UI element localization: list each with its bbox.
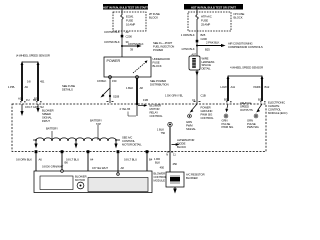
svg-text:BLOCK: BLOCK — [149, 16, 158, 20]
svg-text:POWER: POWER — [107, 59, 121, 63]
svg-text:25 AMP: 25 AMP — [201, 23, 210, 27]
svg-text:C200: C200 — [126, 34, 133, 38]
svg-text:B4: B4 — [149, 158, 153, 162]
svg-text:MODULE: MODULE — [154, 179, 166, 183]
svg-text:A11: A11 — [231, 85, 236, 89]
svg-text:POWER: POWER — [153, 48, 163, 52]
svg-text:OUTPUTS: OUTPUTS — [240, 108, 253, 112]
svg-text:TAP: TAP — [96, 122, 101, 126]
svg-text:1 PPL: 1 PPL — [8, 85, 16, 89]
svg-text:S208: S208 — [113, 95, 120, 99]
svg-text:1 BLK: 1 BLK — [126, 86, 133, 90]
svg-text:DETAILS: DETAILS — [62, 88, 73, 92]
svg-text:BLK: BLK — [155, 161, 160, 165]
svg-text:DETAIL: DETAIL — [202, 66, 212, 70]
svg-text:450: 450 — [160, 166, 165, 170]
svg-text:0.8 ORN BLK: 0.8 ORN BLK — [16, 158, 32, 162]
svg-text:DISTRIBUTION: DISTRIBUTION — [150, 83, 169, 87]
svg-text:C1B: C1B — [201, 94, 206, 98]
svg-text:COMPRESSOR CONTROLS: COMPRESSOR CONTROLS — [228, 45, 263, 49]
svg-text:CONTROL: CONTROL — [150, 114, 164, 118]
svg-text:0.8 YEL WHT: 0.8 YEL WHT — [92, 166, 108, 170]
svg-text:(4 WHEEL SPEED SENSOR: (4 WHEEL SPEED SENSOR — [16, 54, 50, 58]
svg-text:B1: B1 — [33, 98, 37, 102]
svg-text:BLOWER: BLOWER — [186, 176, 198, 180]
svg-text:0.8 DK GRN/WHT: 0.8 DK GRN/WHT — [42, 165, 64, 169]
svg-text:BLOCK: BLOCK — [153, 64, 162, 68]
svg-text:LOW: LOW — [220, 85, 227, 89]
svg-text:MOTOR DETAIL: MOTOR DETAIL — [122, 143, 142, 147]
svg-text:2 YEL 65: 2 YEL 65 — [120, 107, 131, 111]
svg-text:A4: A4 — [90, 158, 94, 162]
svg-text:HOT IN RUN, BULB TEST OR START: HOT IN RUN, BULB TEST OR START — [191, 5, 236, 9]
svg-text:1 DK GRN YEL: 1 DK GRN YEL — [165, 94, 184, 98]
svg-text:SIGNAL: SIGNAL — [186, 127, 196, 131]
svg-text:451: 451 — [40, 80, 45, 84]
svg-text:4 WHEEL SPEED SENSOR: 4 WHEEL SPEED SENSOR — [230, 66, 263, 70]
svg-text:10 AMP: 10 AMP — [126, 23, 135, 27]
svg-text:FU: FU — [26, 98, 30, 102]
svg-text:1 ORN BLK: 1 ORN BLK — [181, 33, 195, 37]
svg-text:A07: A07 — [191, 53, 196, 57]
svg-text:PWM SIG: PWM SIG — [247, 125, 259, 129]
svg-text:0.8 PNK BLK: 0.8 PNK BLK — [128, 42, 144, 46]
svg-text:A9: A9 — [25, 85, 29, 89]
svg-text:450: 450 — [173, 162, 178, 166]
svg-text:PARK: PARK — [253, 85, 260, 89]
svg-text:0.8 PNK BLK: 0.8 PNK BLK — [104, 40, 120, 44]
svg-text:150: 150 — [112, 79, 117, 83]
svg-text:BLOCK: BLOCK — [177, 145, 186, 149]
svg-text:N: N — [166, 153, 168, 157]
svg-text:2 PNK BLK: 2 PNK BLK — [206, 40, 219, 44]
svg-text:A8: A8 — [121, 166, 125, 170]
svg-text:750: 750 — [161, 131, 166, 135]
svg-text:B25: B25 — [205, 48, 210, 52]
svg-text:HOT IN RUN, BULB TEST OR START: HOT IN RUN, BULB TEST OR START — [103, 5, 148, 9]
svg-text:B12: B12 — [258, 98, 263, 102]
svg-text:CONTROL: CONTROL — [201, 116, 215, 120]
svg-text:MOTOR: MOTOR — [75, 178, 85, 182]
svg-text:0.8 BLK: 0.8 BLK — [97, 79, 106, 83]
svg-text:B11: B11 — [224, 98, 229, 102]
svg-text:A10: A10 — [18, 97, 23, 101]
svg-text:A6: A6 — [39, 158, 43, 162]
svg-text:1 PNK BLK: 1 PNK BLK — [181, 47, 194, 51]
svg-text:0.8 PNK BLK: 0.8 PNK BLK — [104, 30, 120, 34]
svg-text:BLOCK: BLOCK — [234, 16, 243, 20]
svg-text:MODULE (ECC): MODULE (ECC) — [268, 111, 287, 115]
svg-text:BATTERY: BATTERY — [46, 127, 58, 131]
svg-text:C1: C1 — [192, 98, 196, 102]
svg-text:B12: B12 — [265, 85, 270, 89]
svg-text:A8: A8 — [140, 86, 144, 90]
svg-text:0.8 LT BLU: 0.8 LT BLU — [124, 158, 137, 162]
svg-text:F1B: F1B — [143, 98, 148, 102]
svg-text:INPUT: INPUT — [42, 119, 50, 123]
svg-text:PWM SIG: PWM SIG — [222, 125, 234, 129]
svg-text:0.8 LT BLU: 0.8 LT BLU — [66, 158, 79, 162]
svg-text:0.8: 0.8 — [27, 80, 31, 84]
